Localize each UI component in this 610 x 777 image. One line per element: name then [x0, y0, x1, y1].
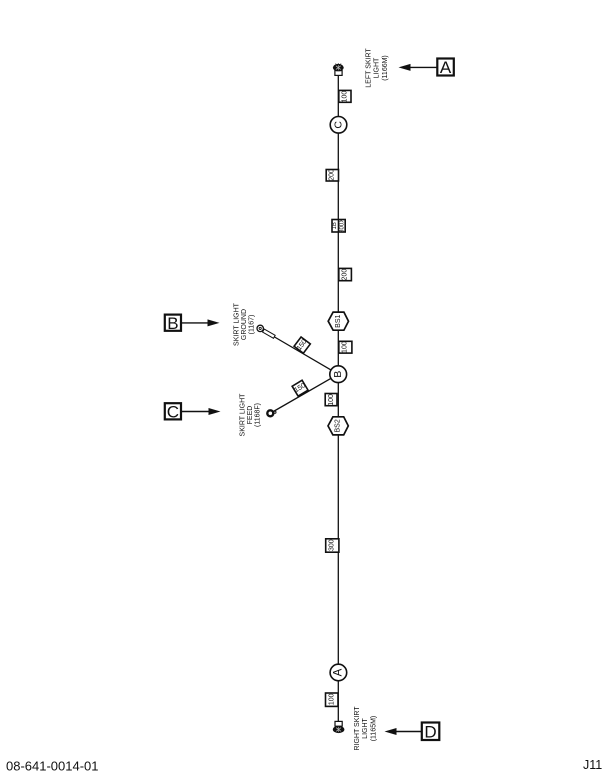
label RIGHT SKIRT LIGHT (1165M) [354, 706, 378, 751]
label wire 150 (feed branch, rotated) [292, 380, 308, 396]
svg-text:BS1: BS1 [335, 314, 342, 327]
label LEFT SKIRT LIGHT (1166M) [365, 48, 389, 88]
svg-text:200: 200 [342, 269, 349, 281]
label wire 100 (top) [339, 90, 351, 102]
svg-text:SKIRT LIGHT: SKIRT LIGHT [240, 393, 247, 437]
svg-text:GROUND: GROUND [241, 309, 248, 340]
wire main harness vertical [337, 75, 339, 721]
label wire 200 (left side) [326, 169, 338, 181]
svg-text:(1166M): (1166M) [382, 55, 389, 81]
label wire 100 (bottom) [326, 693, 339, 706]
node C connector ring [330, 117, 347, 134]
svg-text:100: 100 [329, 693, 336, 705]
wire branch to skirt light feed terminal [273, 374, 339, 412]
svg-text:LIGHT: LIGHT [362, 717, 369, 738]
svg-text:FEED: FEED [247, 406, 254, 425]
svg-text:B: B [167, 314, 178, 333]
label SKIRT LIGHT FEED (1168F) [240, 393, 262, 437]
callout box D [385, 722, 440, 741]
svg-text:D: D [424, 722, 436, 741]
label wire 150 (ground branch, rotated) [294, 337, 310, 353]
wire branch to skirt light ground terminal [272, 336, 338, 375]
svg-text:08-641-0014-01: 08-641-0014-01 [6, 759, 99, 774]
svg-text:300X: 300X [339, 219, 345, 233]
svg-text:B: B [332, 371, 344, 378]
svg-text:100: 100 [342, 341, 349, 353]
callout box A [399, 58, 454, 77]
svg-text:LIGHT: LIGHT [374, 57, 381, 78]
svg-text:SKIRT LIGHT: SKIRT LIGHT [234, 302, 241, 346]
svg-text:100: 100 [328, 394, 335, 406]
callout box C [165, 403, 221, 422]
label wire 100 (above node B) [339, 341, 352, 353]
node B connector ring [330, 366, 347, 383]
svg-text:RIGHT SKIRT: RIGHT SKIRT [354, 706, 361, 751]
svg-text:A: A [332, 668, 344, 676]
svg-text:(1165M): (1165M) [371, 716, 378, 742]
connector terminal right skirt light bulb (bottom) [333, 721, 345, 733]
callout box B [165, 314, 220, 333]
splice pair box 1B / 300X [332, 219, 345, 233]
svg-text:C: C [167, 403, 179, 422]
terminal eyelet skirt light ground [257, 325, 275, 338]
svg-text:J11: J11 [583, 758, 602, 772]
splice BS1 hexagon [328, 312, 348, 330]
node A connector ring [330, 664, 347, 681]
svg-text:C: C [333, 121, 345, 129]
svg-text:1B: 1B [332, 222, 338, 229]
svg-text:A: A [440, 58, 452, 77]
svg-text:100: 100 [342, 91, 349, 103]
svg-text:200: 200 [328, 169, 335, 181]
svg-text:(1168F): (1168F) [255, 403, 262, 427]
label wire 300 [326, 539, 339, 552]
svg-text:(1167): (1167) [249, 315, 256, 335]
connector terminal left skirt light bulb (top) [333, 63, 344, 75]
svg-text:LEFT SKIRT: LEFT SKIRT [365, 48, 372, 88]
splice BS2 hexagon [328, 417, 348, 435]
label SKIRT LIGHT GROUND (1167) [234, 302, 256, 346]
terminal ring skirt light feed [267, 410, 276, 416]
label wire 100 (below node B) [325, 394, 337, 406]
label wire 200 (right side) [339, 268, 352, 280]
svg-text:300: 300 [329, 539, 336, 551]
svg-text:BS2: BS2 [335, 419, 342, 432]
